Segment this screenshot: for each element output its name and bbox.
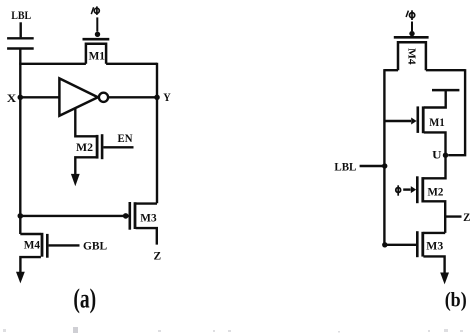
transistor M3 (a) (130, 202, 157, 230)
capacitor C1 on LBL (7, 22, 34, 48)
wire X to inverter input (20, 96, 59, 98)
wire /phi to M1 gate with arrow dot (a) (95, 17, 100, 37)
wire EN gate lead (a) (103, 146, 133, 148)
wire left rail (a) (19, 49, 21, 235)
svg-text:M4: M4 (24, 239, 41, 251)
transistor M2 (a) (76, 134, 102, 159)
wire left rail (b) (383, 69, 385, 245)
faint cropped text row at bottom (3, 327, 463, 333)
inverter U1 (59, 78, 108, 115)
wire right rail (a) (156, 63, 158, 204)
wire node U down to M2 drain (b) (423, 155, 445, 178)
wire M1 drain up to T-bar terminal (b) (424, 90, 460, 107)
wire right rail (b) (448, 69, 465, 155)
svg-text:M2: M2 (428, 186, 444, 198)
junction node at M3 gate (a) (123, 213, 129, 219)
ground arrow under M4 (a) (16, 272, 25, 284)
wire Z stub (b) (445, 215, 461, 217)
transistor M3 (b) (384, 231, 443, 257)
node X (7, 93, 23, 105)
wire M3 source to Z stub (a) (136, 228, 157, 245)
svg-text:M2: M2 (76, 142, 93, 154)
wire inverter output to Y (108, 96, 157, 98)
svg-text:Y: Y (163, 92, 171, 104)
wire /phi to M4 gate with arrow dot (b) (409, 22, 414, 37)
svg-text:M3: M3 (426, 240, 443, 252)
wire GBL gate lead (a) (49, 244, 80, 246)
svg-text:(b): (b) (445, 288, 467, 312)
ground arrow (b) (440, 273, 449, 285)
svg-text:Z: Z (463, 212, 471, 224)
transistor M1 (b) with gate arrow (384, 106, 445, 133)
wire M3 source to ground (b) (423, 256, 444, 273)
clock /phi label (b) (406, 10, 415, 20)
svg-text:Z: Z (154, 250, 162, 262)
svg-text:GBL: GBL (83, 240, 108, 252)
wire LBL lead (b) (360, 165, 385, 167)
transistor M2 (b) (417, 176, 443, 203)
transistor M4 (b) (394, 37, 429, 70)
wire M3 drain (b) (423, 232, 445, 234)
ground arrow under M2 (a) (71, 174, 80, 186)
wire M4 drain from left rail (a) (20, 233, 41, 235)
clock phi label (b) (396, 185, 401, 195)
clock /phi label (a) (91, 6, 99, 15)
junction node LBL (b) (382, 163, 387, 168)
svg-text:X: X (7, 93, 17, 105)
transistor M1 (a) (83, 39, 110, 64)
wire top rail (b) (384, 69, 465, 71)
wire top rail left segment (a) (19, 63, 86, 65)
svg-text:M4: M4 (406, 48, 417, 65)
wire M4 source to ground (a) (20, 257, 41, 272)
svg-text:(a): (a) (73, 283, 96, 314)
transistor M4 (a) (24, 233, 48, 258)
junction node at M3 gate (b) (382, 242, 387, 247)
svg-text:M3: M3 (140, 213, 157, 225)
svg-text:U: U (432, 149, 442, 161)
wire M2 source to ground (a) (75, 157, 96, 174)
svg-text:M1: M1 (429, 117, 445, 129)
svg-text:LBL: LBL (334, 161, 356, 173)
svg-text:M1: M1 (89, 50, 106, 62)
node U (432, 149, 448, 161)
wire bottom rail / M3 gate lead (a) (20, 215, 128, 217)
svg-text:LBL: LBL (11, 10, 31, 22)
svg-text:EN: EN (118, 133, 134, 145)
wire M2 source down to M3 drain (b) (423, 201, 445, 233)
wire phi to M2 gate with arrow (b) (403, 186, 416, 193)
junction node on left rail (a) (18, 213, 24, 219)
wire inverter bottom tap to M2 drain (a) (75, 108, 96, 137)
node Y (154, 92, 171, 104)
wire M1 source to node U (b) (424, 132, 446, 155)
wire top rail right segment (a) (106, 63, 157, 65)
wire M3 drain to right rail (a) (136, 202, 157, 204)
